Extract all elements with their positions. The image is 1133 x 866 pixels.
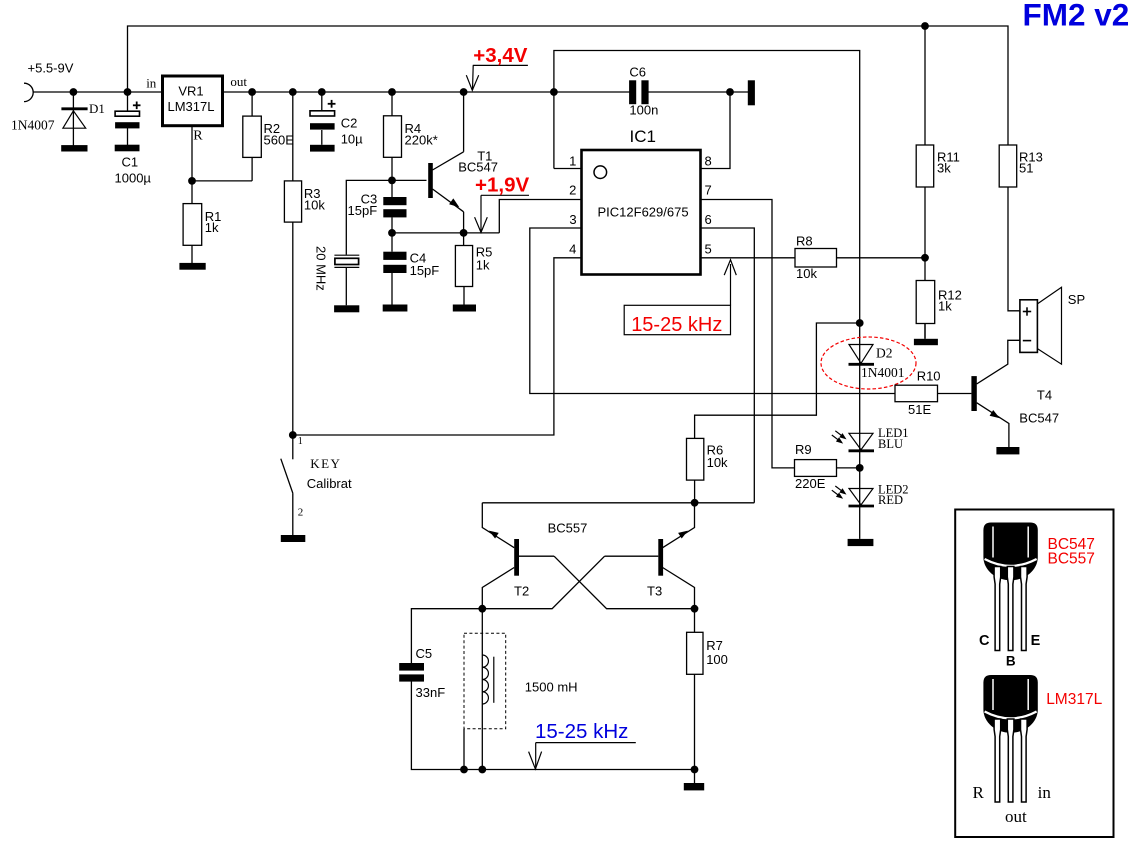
svg-text:220k*: 220k* xyxy=(405,133,438,148)
diode D2 xyxy=(849,345,875,365)
svg-text:3k: 3k xyxy=(937,161,951,176)
svg-text:1000µ: 1000µ xyxy=(115,171,152,186)
ground under crystal xyxy=(334,305,359,312)
wire R5 stem upper xyxy=(463,233,465,246)
svg-text:IC1: IC1 xyxy=(630,127,656,146)
ground under LED2 xyxy=(848,539,874,546)
svg-text:BC547: BC547 xyxy=(458,160,498,175)
wire R11 drop from top rail xyxy=(924,26,926,145)
IC1 PIC12F629/675 box xyxy=(582,150,701,275)
svg-text:4: 4 xyxy=(569,242,576,257)
svg-text:out: out xyxy=(230,74,247,89)
svg-text:+3,4V: +3,4V xyxy=(473,44,527,67)
wire D1 branch xyxy=(72,92,74,146)
ground under C2 xyxy=(310,145,335,152)
ground under KEY xyxy=(281,535,306,542)
svg-text:R9: R9 xyxy=(795,442,812,457)
svg-text:BC557: BC557 xyxy=(1048,551,1095,568)
wire T2 collector lead xyxy=(482,568,514,609)
ground under R1 xyxy=(179,263,205,270)
resistor R13 xyxy=(999,145,1017,187)
transistor T3 xyxy=(658,531,688,576)
svg-text:100n: 100n xyxy=(629,103,658,118)
resistor R10 xyxy=(895,385,938,402)
svg-text:out: out xyxy=(1005,807,1027,826)
svg-text:1k: 1k xyxy=(938,299,952,314)
svg-text:15-25 kHz: 15-25 kHz xyxy=(631,314,722,336)
svg-text:B: B xyxy=(1006,654,1016,669)
wire R4 branch xyxy=(391,92,393,180)
svg-text:20 MHz: 20 MHz xyxy=(314,246,329,291)
crystal 20 MHz xyxy=(334,255,359,267)
resistor R12 xyxy=(916,281,935,324)
wire pin2 net xyxy=(499,200,581,233)
wire T2 base to T3 collector diagonal xyxy=(554,556,694,609)
svg-text:1N4001: 1N4001 xyxy=(861,365,905,380)
wire R9 to led node xyxy=(837,467,860,469)
probe arrow blue 15-25 kHz xyxy=(529,743,636,769)
capacitor C4 xyxy=(383,252,406,273)
wire C3-C4 middle xyxy=(391,217,393,251)
svg-text:D1: D1 xyxy=(89,101,105,116)
wire inductor vertical xyxy=(481,609,483,770)
svg-text:R: R xyxy=(193,129,203,144)
svg-text:in: in xyxy=(146,76,157,91)
svg-text:R10: R10 xyxy=(917,369,941,384)
capacitor C1 xyxy=(115,102,140,129)
switch KEY xyxy=(281,459,293,493)
svg-text:10µ: 10µ xyxy=(341,132,363,147)
wire pin5 net through R8 xyxy=(701,257,926,259)
LED2 xyxy=(832,486,874,506)
svg-text:1: 1 xyxy=(569,154,576,169)
wire emitter node horizontal xyxy=(392,232,499,234)
wire pin4 net to key xyxy=(293,258,582,435)
capacitor C6 xyxy=(629,80,649,104)
info panel box xyxy=(955,510,1113,838)
wire T3 base link xyxy=(605,555,659,557)
resistor R8 xyxy=(795,249,837,268)
svg-text:51: 51 xyxy=(1019,161,1033,176)
svg-text:220E: 220E xyxy=(795,476,826,491)
svg-text:1: 1 xyxy=(298,436,303,447)
svg-text:10k: 10k xyxy=(304,198,325,213)
wire T3 base to T2 collector diagonal xyxy=(482,556,604,609)
svg-text:E: E xyxy=(1031,633,1041,649)
wire R13 drop to speaker plus xyxy=(1008,187,1020,311)
svg-text:560E: 560E xyxy=(264,133,295,148)
wire key terminal 1 xyxy=(292,435,294,459)
svg-text:C5: C5 xyxy=(416,646,433,661)
svg-text:C2: C2 xyxy=(341,116,358,131)
svg-text:5: 5 xyxy=(705,242,712,257)
probe arrow +1,9V xyxy=(475,195,529,232)
wire T3 collector lead xyxy=(663,568,695,609)
wire R6 bottom stub xyxy=(694,480,696,503)
resistor R1 xyxy=(183,204,202,246)
resistor R4 xyxy=(384,116,402,158)
svg-text:T2: T2 xyxy=(514,584,529,599)
wire R12 ground stub xyxy=(924,324,926,339)
svg-text:R: R xyxy=(973,783,985,802)
wire C3 upper stem xyxy=(391,180,393,197)
TO92 package BC547 BC557 xyxy=(983,523,1037,651)
svg-text:BC557: BC557 xyxy=(548,521,588,536)
diode D1 xyxy=(61,109,87,128)
svg-text:1N4007: 1N4007 xyxy=(11,118,55,133)
svg-text:LM317L: LM317L xyxy=(168,99,215,114)
wire pin8 stub xyxy=(701,92,731,169)
capacitor C3 xyxy=(383,197,406,217)
wire T2 collector to C5 xyxy=(411,609,482,663)
svg-text:7: 7 xyxy=(705,183,712,198)
svg-text:2: 2 xyxy=(298,507,304,519)
wire rail right of C6 xyxy=(648,91,749,93)
svg-text:LM317L: LM317L xyxy=(1046,691,1102,708)
wire C2 lower stem xyxy=(321,130,323,145)
wire R2 branch xyxy=(251,92,253,181)
resistor R5 xyxy=(455,246,472,287)
wire T4 collector to speaker minus xyxy=(977,340,1020,384)
probe arrow up to pin5 with red box xyxy=(624,260,736,335)
wire C2 branch xyxy=(321,92,323,111)
wire T2 base link xyxy=(519,555,554,557)
svg-text:C1: C1 xyxy=(122,155,139,170)
svg-text:D2: D2 xyxy=(876,346,893,361)
wire pin3 net to R10 xyxy=(530,228,895,394)
transistor T2 xyxy=(489,531,519,576)
svg-text:1k: 1k xyxy=(205,220,219,235)
wire C1 lower stem xyxy=(127,128,129,146)
svg-text:33nF: 33nF xyxy=(416,685,446,700)
ground under T4 xyxy=(996,447,1019,454)
wire T3 emitter lead xyxy=(663,503,695,548)
svg-text:T3: T3 xyxy=(647,584,662,599)
resistor R11 xyxy=(916,145,934,187)
speaker SP xyxy=(1020,287,1062,364)
wire pin1 stub xyxy=(554,168,582,170)
inductor L1 coil xyxy=(482,655,494,704)
svg-text:R7: R7 xyxy=(706,638,723,653)
ground under C4 xyxy=(383,305,408,312)
svg-text:FM2 v2: FM2 v2 xyxy=(1023,0,1130,33)
input connector J1 xyxy=(24,83,33,101)
resistor R9 xyxy=(795,460,837,477)
LED1 xyxy=(832,431,874,451)
ground under R12 xyxy=(914,339,938,345)
wire pin6 net down to multivibrator rail xyxy=(701,228,755,503)
svg-text:1k: 1k xyxy=(476,258,490,273)
svg-text:15-25 kHz: 15-25 kHz xyxy=(535,720,628,743)
svg-text:C: C xyxy=(979,633,990,649)
wire key terminal 2 xyxy=(292,493,294,535)
svg-text:T4: T4 xyxy=(1037,388,1052,403)
svg-text:51E: 51E xyxy=(908,402,931,417)
wire R3 branch down to key node xyxy=(292,92,294,435)
svg-text:15pF: 15pF xyxy=(348,203,378,218)
wire top supply rail xyxy=(128,26,1009,145)
probe arrow +3,4V xyxy=(466,65,528,90)
svg-text:R8: R8 xyxy=(796,234,813,249)
svg-text:3: 3 xyxy=(569,212,576,227)
svg-text:C6: C6 xyxy=(629,65,646,80)
capacitor C5 xyxy=(399,663,424,682)
ground under D1 xyxy=(61,145,87,151)
svg-text:PIC12F629/675: PIC12F629/675 xyxy=(598,205,689,220)
ground under R7 xyxy=(684,783,704,790)
red ellipse highlight around D2 xyxy=(821,337,916,389)
svg-text:SP: SP xyxy=(1068,292,1085,307)
svg-text:2: 2 xyxy=(569,183,576,198)
wire R11 R12 chain xyxy=(924,187,926,339)
svg-text:15pF: 15pF xyxy=(410,263,440,278)
svg-text:Calibrat: Calibrat xyxy=(307,476,352,491)
svg-text:8: 8 xyxy=(705,154,712,169)
ground under R5 xyxy=(453,305,476,312)
wire pin7 net down to R9 xyxy=(701,200,795,468)
svg-text:KEY: KEY xyxy=(310,456,341,471)
svg-text:+1,9V: +1,9V xyxy=(475,174,529,197)
wire T2 emitter lead xyxy=(482,503,514,548)
wire R7 chain xyxy=(694,609,696,770)
wire C4 lower stem xyxy=(391,273,393,305)
svg-text:VR1: VR1 xyxy=(178,83,203,98)
wire R5 stem lower xyxy=(463,287,465,305)
wire multivibrator top rail xyxy=(482,502,754,504)
wire D2 anode to R6 xyxy=(695,323,860,438)
svg-text:in: in xyxy=(1038,783,1052,802)
svg-text:BLU: BLU xyxy=(878,437,903,451)
TO92 package LM317L xyxy=(983,675,1037,802)
wire crystal horizontal to T1 base xyxy=(346,180,426,254)
svg-text:RED: RED xyxy=(878,493,903,507)
ground under C1 xyxy=(115,145,140,152)
svg-text:BC547: BC547 xyxy=(1019,411,1059,426)
resistor R2 xyxy=(243,116,261,157)
svg-text:100: 100 xyxy=(706,652,728,667)
ground bar right of C6 xyxy=(748,80,755,105)
svg-text:1500 mH: 1500 mH xyxy=(525,680,578,695)
wire D2 led chain vertical xyxy=(859,323,861,539)
wire main +supply rail xyxy=(33,91,630,93)
wire pin1 net vertical and upper link xyxy=(554,51,860,324)
svg-text:6: 6 xyxy=(705,212,712,227)
resistor R3 xyxy=(284,181,301,222)
svg-text:+5.5-9V: +5.5-9V xyxy=(28,61,74,76)
regulator VR1 box xyxy=(163,76,223,126)
capacitor C2 xyxy=(310,100,336,130)
transistor T1 xyxy=(428,92,463,233)
wire shield tap xyxy=(463,729,465,770)
resistor R7 xyxy=(687,632,703,674)
inductor L1 dashed box xyxy=(464,633,506,729)
wire T4 emitter to ground xyxy=(977,403,1009,447)
svg-text:10k: 10k xyxy=(796,266,817,281)
transistor T4 xyxy=(971,376,999,418)
wire R10 to T4 base xyxy=(938,393,972,395)
wire C5 lower stem xyxy=(411,682,694,770)
wire C1 branch xyxy=(127,92,129,112)
svg-text:10k: 10k xyxy=(707,455,728,470)
wire crystal lower stem xyxy=(345,267,347,305)
wire VR1 R pin to R1 xyxy=(191,126,193,246)
wire bottom rail ground stub xyxy=(694,770,696,784)
wire R2 to R1 link xyxy=(192,180,252,182)
wire R1 to ground xyxy=(191,245,193,263)
resistor R6 xyxy=(687,438,704,480)
